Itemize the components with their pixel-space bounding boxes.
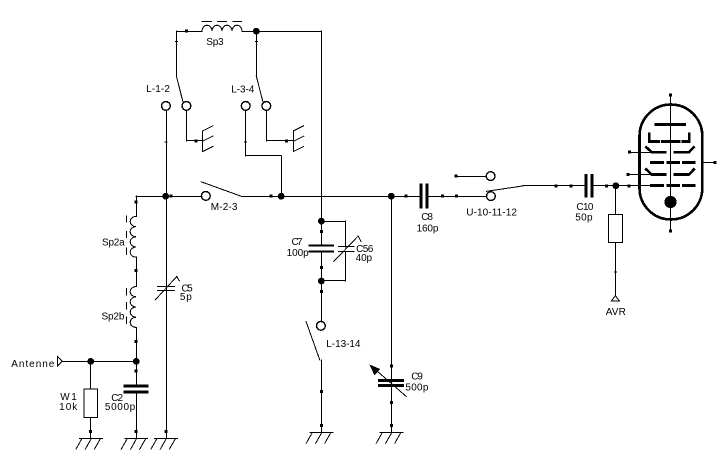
- svg-text:M-2-3: M-2-3: [211, 202, 238, 213]
- svg-text:C10: C10: [576, 202, 593, 213]
- svg-text:L-1-2: L-1-2: [146, 84, 170, 95]
- svg-text:5p: 5p: [180, 292, 192, 303]
- svg-text:Sp2b: Sp2b: [102, 312, 125, 323]
- svg-text:C7: C7: [292, 237, 304, 248]
- svg-text:160p: 160p: [417, 223, 439, 234]
- svg-text:5000p: 5000p: [105, 402, 136, 413]
- svg-text:C9: C9: [411, 372, 423, 383]
- svg-text:AVR: AVR: [606, 307, 626, 318]
- svg-text:C8: C8: [421, 212, 433, 223]
- svg-text:10k: 10k: [59, 402, 78, 413]
- svg-text:500p: 500p: [405, 383, 428, 394]
- svg-text:Sp3: Sp3: [206, 37, 224, 48]
- svg-text:50p: 50p: [575, 212, 593, 223]
- svg-text:Antenne: Antenne: [11, 359, 54, 370]
- svg-text:L-13-14: L-13-14: [326, 339, 361, 350]
- svg-text:40p: 40p: [356, 253, 373, 264]
- svg-text:Sp2a: Sp2a: [102, 238, 125, 249]
- svg-text:U-10-11-12: U-10-11-12: [466, 207, 517, 218]
- svg-text:100p: 100p: [287, 248, 310, 259]
- svg-text:L-3-4: L-3-4: [231, 84, 254, 95]
